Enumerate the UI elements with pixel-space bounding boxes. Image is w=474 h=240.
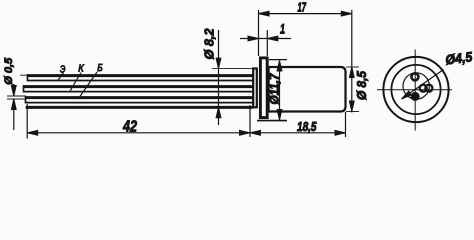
lead Э (top lead, emitter): [20, 74, 253, 81]
dimension Ø8,2 (left vertical dim): [202, 28, 253, 125]
svg-text:Ø 8,2: Ø 8,2: [202, 28, 217, 60]
pin middle B: [425, 85, 432, 92]
label Б with leader: [80, 62, 103, 97]
dimension 42 (lead length): [27, 104, 250, 139]
lead 4 (case lead, bottom): [26, 106, 253, 109]
pin middle A: [420, 85, 427, 92]
label Э with leader: [58, 63, 65, 80]
end view: pin circle Ø4,5: [403, 73, 429, 99]
insulator disc Ø8.2 (disc1): [253, 69, 257, 108]
end view: horizontal center line: [377, 89, 452, 91]
dimension 17 (body length): [259, 0, 352, 113]
svg-text:Ø 0,5: Ø 0,5: [3, 57, 15, 85]
flange disc Ø11.7 (disc2): [260, 58, 267, 118]
dimension Ø8,5 (body diameter, right): [346, 67, 369, 112]
svg-text:Ø 8,5: Ø 8,5: [355, 70, 369, 100]
label Ø4,5 with leader arrow: [400, 49, 473, 101]
dimension 1 (flange thickness): [240, 10, 291, 56]
pin top: [411, 73, 418, 80]
end view: outer circle (flange): [383, 57, 448, 122]
svg-text:1: 1: [280, 22, 285, 37]
end view: vertical center line: [414, 50, 416, 131]
dimension 18,5 (body+flange length): [250, 112, 346, 137]
end view: inner ring (body): [391, 65, 440, 114]
lead Б (third lead, base): [25, 96, 253, 103]
lead К (second lead, collector): [23, 85, 253, 92]
label К with leader: [70, 63, 84, 91]
svg-text:Б: Б: [97, 62, 103, 74]
dimension Ø11,7 (flange diameter): [257, 60, 287, 121]
svg-text:17: 17: [298, 0, 307, 15]
pin bottom: [412, 93, 418, 99]
svg-text:18,5: 18,5: [297, 119, 317, 134]
transistor body (case cylinder): [269, 67, 346, 112]
dimension Ø0,5 (lead diameter): [3, 57, 26, 130]
